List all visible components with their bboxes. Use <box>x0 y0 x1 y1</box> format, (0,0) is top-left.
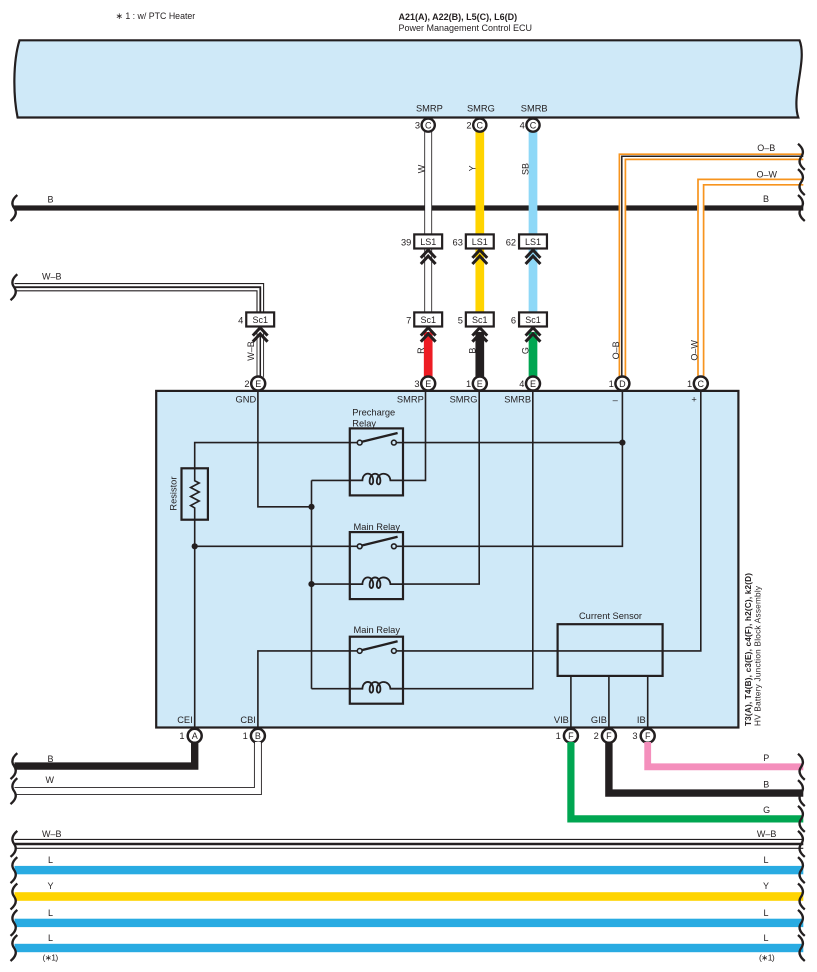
tear GIB B right <box>798 780 805 806</box>
relay K2 Main Relay <box>350 532 403 599</box>
wire W-B (full width) <box>15 839 804 848</box>
svg-text:1: 1 <box>243 731 248 741</box>
svg-text:63: 63 <box>453 237 463 247</box>
wire SMRP to precharge relay coil <box>403 392 426 480</box>
wire GND net <box>258 392 312 507</box>
wire minus terminal to main relay contact <box>403 392 622 546</box>
svg-text:(∗1): (∗1) <box>759 953 775 963</box>
terminal 2 C (SMRG) <box>466 119 486 132</box>
wire SB (SMRB column, lower segment) <box>529 249 538 313</box>
svg-text:GND: GND <box>236 395 257 405</box>
svg-text:CBI: CBI <box>240 715 256 725</box>
svg-text:3: 3 <box>632 731 637 741</box>
chevron below 62 LS1 <box>526 250 541 264</box>
svg-text:F: F <box>568 731 574 741</box>
svg-text:C: C <box>530 120 537 130</box>
svg-text:L: L <box>763 933 768 943</box>
tear CEI B left <box>11 753 18 779</box>
svg-text:B: B <box>763 194 769 204</box>
wire W (SMRP column, lower segment) <box>425 249 432 313</box>
connector 62 LS1 <box>506 234 547 248</box>
svg-text:2: 2 <box>594 731 599 741</box>
svg-text:Current Sensor: Current Sensor <box>579 611 642 621</box>
terminal 2 E (GND) <box>244 377 265 391</box>
wire B (black, SMRG column) <box>475 332 484 377</box>
wire L 2 (blue full width) <box>15 919 804 927</box>
wire O-W (orange/white, right top) <box>698 179 803 377</box>
svg-text:E: E <box>530 379 536 389</box>
svg-text:+: + <box>691 394 696 404</box>
wire to main relay contact left <box>195 545 350 547</box>
terminal 2 F (GIB) <box>594 729 616 743</box>
svg-text:4: 4 <box>238 315 243 325</box>
tear L3 right <box>798 935 805 961</box>
node junction precharge contact / minus line <box>619 440 625 446</box>
svg-text:3: 3 <box>415 120 420 130</box>
svg-text:E: E <box>425 379 431 389</box>
resistor R (precharge resistor) <box>182 468 208 519</box>
svg-text:Sc1: Sc1 <box>420 315 436 325</box>
svg-text:B: B <box>48 194 54 204</box>
svg-text:B: B <box>467 348 477 354</box>
relay K3 Main Relay <box>350 637 403 704</box>
svg-text:Precharge: Precharge <box>352 408 395 418</box>
svg-text:W–B: W–B <box>42 829 62 839</box>
svg-text:LS1: LS1 <box>472 237 488 247</box>
connector 6 Sc1 <box>511 312 547 326</box>
wire Y (SMRG column, upper segment) <box>475 132 484 235</box>
wire resistor top to precharge relay contact <box>195 443 350 469</box>
terminal 1 A (CEI) <box>179 729 201 743</box>
wire G (green, SMRB column) <box>529 332 538 377</box>
svg-text:LS1: LS1 <box>525 237 541 247</box>
wire plus terminal to lower main relay contact (through current sensor) <box>403 392 701 651</box>
tear P right <box>798 754 805 780</box>
svg-text:W–B: W–B <box>757 829 777 839</box>
svg-text:L: L <box>48 933 53 943</box>
tear L1 left <box>11 857 18 883</box>
tear L1 right <box>798 857 805 883</box>
chevron below 39 LS1 <box>421 250 436 264</box>
terminal 4 C (SMRB) <box>520 119 540 132</box>
connector 4 Sc1 (W-B column) <box>238 312 274 326</box>
svg-text:39: 39 <box>401 237 411 247</box>
terminal 1 F (VIB) <box>556 729 578 743</box>
terminal 4 E (SMRB) <box>519 377 540 391</box>
svg-text:L: L <box>763 855 768 865</box>
wire to lower main relay coil left <box>312 688 350 690</box>
svg-text:E: E <box>477 379 483 389</box>
wire SB (SMRB column, upper segment) <box>529 132 538 235</box>
tear G right <box>798 806 805 832</box>
node junction GND/coil bus <box>308 504 314 510</box>
svg-text:5: 5 <box>458 315 463 325</box>
wire SMRB to lower main relay coil <box>403 392 533 689</box>
svg-text:W–B: W–B <box>42 271 62 281</box>
svg-text:B: B <box>763 779 769 789</box>
svg-text:SMRP: SMRP <box>416 103 443 113</box>
svg-text:IB: IB <box>637 715 646 725</box>
svg-text:L: L <box>48 855 53 865</box>
svg-text:4: 4 <box>520 120 525 130</box>
svg-text:VIB: VIB <box>554 715 569 725</box>
svg-text:GIB: GIB <box>591 715 607 725</box>
svg-text:E: E <box>255 379 261 389</box>
svg-text:SMRB: SMRB <box>521 103 548 113</box>
tear Y right <box>798 884 805 910</box>
terminal 3 C (SMRP) <box>415 119 435 132</box>
node junction resistor / main relay contact <box>192 543 198 549</box>
wire W (CBI, white to left) <box>15 742 262 795</box>
svg-text:3: 3 <box>414 379 419 389</box>
wire L 1 (blue full width) <box>15 866 804 874</box>
svg-text:Y: Y <box>467 165 477 171</box>
wire B (horizontal black bus, top) <box>14 205 803 210</box>
svg-text:C: C <box>698 379 705 389</box>
wire L 3 (blue full width, *1) <box>15 944 804 952</box>
wire current sensor IB lead <box>647 676 649 728</box>
svg-text:R: R <box>416 347 426 354</box>
svg-text:Main Relay: Main Relay <box>354 625 401 635</box>
chevron below 4 Sc1 <box>253 328 268 342</box>
svg-text:1: 1 <box>687 379 692 389</box>
svg-text:F: F <box>645 731 651 741</box>
wire P (IB, pink to right) <box>648 742 804 767</box>
wire G (VIB, green to right) <box>571 742 803 819</box>
svg-text:O–W: O–W <box>690 340 700 361</box>
terminal 1 E (SMRG) <box>466 377 487 391</box>
chevron below 63 LS1 <box>472 250 487 264</box>
svg-text:4: 4 <box>519 379 524 389</box>
svg-text:P: P <box>763 753 769 763</box>
svg-text:SMRP: SMRP <box>397 395 424 405</box>
tear L2 left <box>11 910 18 936</box>
wire CBI terminal to lower main relay contact <box>258 651 350 728</box>
tear L2 right <box>798 910 805 936</box>
wire W-B (white/black, left) <box>15 284 264 313</box>
wire O-B (orange/black, right top) <box>619 154 803 377</box>
connector 63 LS1 <box>453 234 494 248</box>
svg-text:C: C <box>477 120 484 130</box>
svg-text:Resistor: Resistor <box>168 477 178 511</box>
svg-text:L: L <box>48 908 53 918</box>
svg-text:G: G <box>521 347 531 354</box>
terminal 1 B (CBI) <box>243 729 265 743</box>
terminal 1 C (plus) <box>687 377 708 391</box>
tear L3 left <box>11 935 18 961</box>
svg-text:1: 1 <box>466 379 471 389</box>
tear CBI W left <box>11 778 18 804</box>
tear W-B bottom right <box>798 831 805 857</box>
wire B (GIB, black to right) <box>609 742 803 793</box>
svg-text:6: 6 <box>511 315 516 325</box>
svg-text:W: W <box>417 164 427 173</box>
connector 5 Sc1 <box>458 312 494 326</box>
wire precharge relay contact right <box>403 442 622 444</box>
svg-text:∗ 1 : w/ PTC Heater: ∗ 1 : w/ PTC Heater <box>116 11 196 21</box>
terminal 3 F (IB) <box>632 729 654 743</box>
connector 7 Sc1 <box>406 312 442 326</box>
svg-text:T3(A), T4(B), c3(E), c4(F), h2: T3(A), T4(B), c3(E), c4(F), h2(C), k2(D) <box>744 573 753 726</box>
wire Y (yellow full width) <box>15 892 804 901</box>
svg-text:2: 2 <box>244 379 249 389</box>
wire B (CEI, thick black to left) <box>15 742 195 766</box>
chevron below 5 Sc1 <box>472 328 487 342</box>
terminal 1 D (minus) <box>609 377 630 391</box>
node junction coil bus / main relay coil <box>308 581 314 587</box>
tear B left <box>11 195 18 221</box>
wire W-B (below Sc1, left column) <box>257 333 264 377</box>
relay K1 Precharge Relay <box>350 428 403 495</box>
svg-text:W–B: W–B <box>246 341 256 361</box>
svg-text:C: C <box>425 120 432 130</box>
svg-text:SB: SB <box>521 163 531 175</box>
svg-text:–: – <box>613 395 619 405</box>
current sensor box <box>558 624 663 676</box>
terminal 3 E (SMRP) <box>414 377 435 391</box>
svg-text:Sc1: Sc1 <box>252 315 268 325</box>
svg-text:D: D <box>619 379 626 389</box>
svg-text:Y: Y <box>47 881 53 891</box>
svg-text:Power Management Control ECU: Power Management Control ECU <box>399 23 533 33</box>
tear O-W right <box>798 169 805 195</box>
svg-text:2: 2 <box>466 120 471 130</box>
svg-text:1: 1 <box>609 379 614 389</box>
svg-text:Sc1: Sc1 <box>525 315 541 325</box>
svg-text:Relay: Relay <box>352 418 376 428</box>
connector 39 LS1 <box>401 234 442 248</box>
svg-text:L: L <box>763 908 768 918</box>
svg-text:A: A <box>192 731 198 741</box>
svg-text:F: F <box>606 731 612 741</box>
svg-text:B: B <box>48 754 54 764</box>
svg-text:B: B <box>255 731 261 741</box>
svg-text:O–B: O–B <box>757 143 775 153</box>
svg-text:SMRB: SMRB <box>504 395 531 405</box>
wire SMRG to main relay coil <box>403 392 479 584</box>
svg-text:1: 1 <box>556 731 561 741</box>
wire to precharge relay coil left <box>312 479 350 481</box>
svg-text:1: 1 <box>179 731 184 741</box>
svg-text:(∗1): (∗1) <box>43 953 59 963</box>
wire resistor bottom to CEI terminal <box>194 520 196 728</box>
HV Battery Junction Block Assembly box <box>156 391 738 728</box>
svg-text:SMRG: SMRG <box>450 395 478 405</box>
chevron below 6 Sc1 <box>526 328 541 342</box>
svg-text:O–W: O–W <box>757 170 778 180</box>
svg-text:CEI: CEI <box>177 715 193 725</box>
wire to main relay coil left <box>312 583 350 585</box>
tear W-B bottom left <box>11 831 18 857</box>
chevron below 7 Sc1 <box>421 328 436 342</box>
svg-text:SMRG: SMRG <box>467 103 495 113</box>
svg-text:LS1: LS1 <box>420 237 436 247</box>
wire Y (SMRG column, lower segment) <box>475 249 484 313</box>
wire R (red, SMRP column) <box>424 332 433 377</box>
svg-text:Sc1: Sc1 <box>472 315 488 325</box>
wire W (SMRP column, upper segment) <box>425 132 432 235</box>
svg-text:7: 7 <box>406 315 411 325</box>
wire current sensor GIB lead <box>608 676 610 728</box>
svg-text:Main Relay: Main Relay <box>354 522 401 532</box>
svg-text:A21(A), A22(B), L5(C), L6(D): A21(A), A22(B), L5(C), L6(D) <box>399 12 518 22</box>
ECU box (Power Management Control ECU, torn edges) <box>14 40 801 117</box>
svg-text:Y: Y <box>763 881 769 891</box>
svg-text:G: G <box>763 805 770 815</box>
svg-text:O–B: O–B <box>611 341 621 359</box>
wire coil bus <box>311 480 313 688</box>
svg-text:62: 62 <box>506 237 516 247</box>
tear W-B left <box>11 274 18 300</box>
tear Y left <box>11 884 18 910</box>
tear O-B right <box>798 144 805 170</box>
tear B right <box>798 195 805 221</box>
wire current sensor VIB lead <box>570 676 572 728</box>
svg-text:HV Battery Junction Block Asse: HV Battery Junction Block Assembly <box>754 585 763 726</box>
svg-text:W: W <box>46 775 55 785</box>
